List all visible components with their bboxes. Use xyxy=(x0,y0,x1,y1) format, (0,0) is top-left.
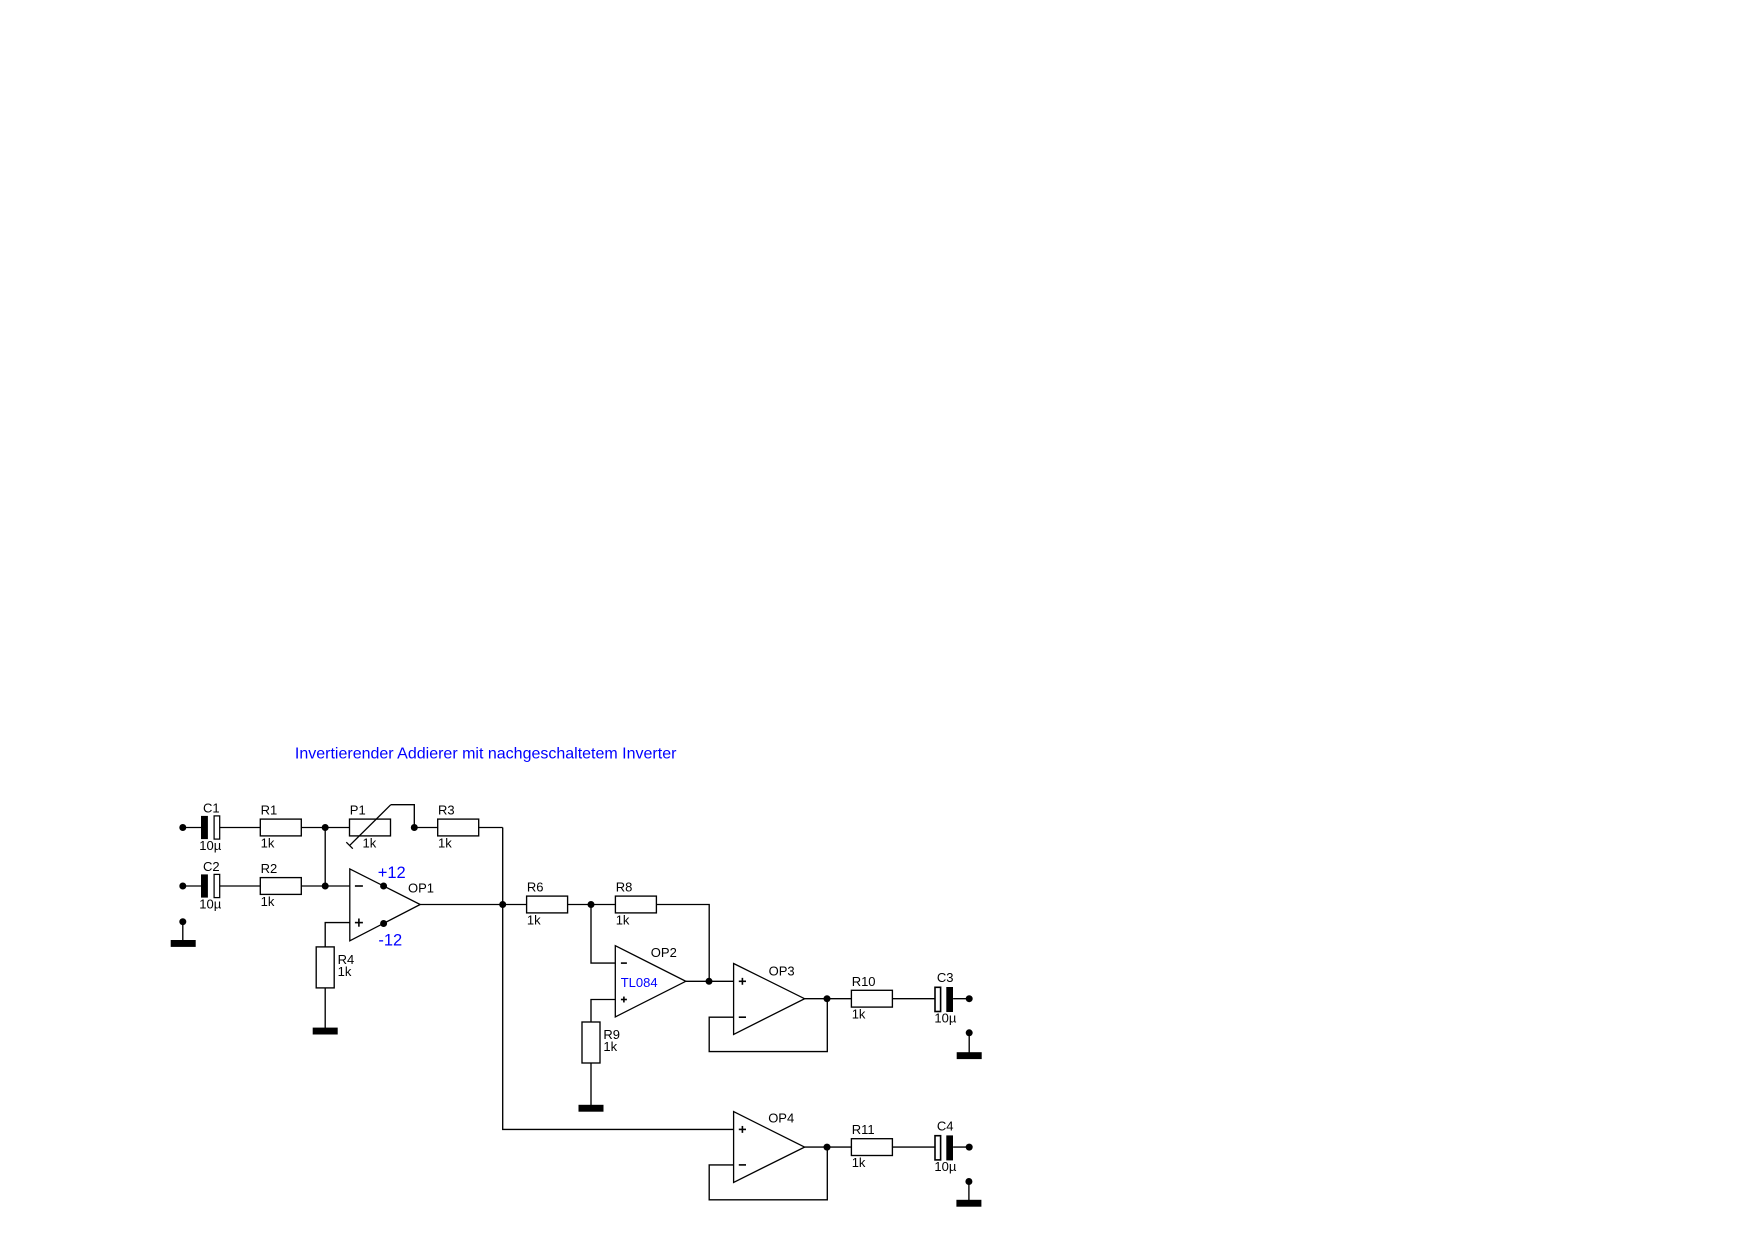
resistor R2 xyxy=(260,861,301,909)
svg-text:10µ: 10µ xyxy=(199,838,221,853)
svg-text:1k: 1k xyxy=(852,1007,866,1022)
capacitor C4 xyxy=(934,1119,956,1174)
wire xyxy=(414,827,437,829)
svg-text:1k: 1k xyxy=(438,835,452,850)
svg-text:-12: -12 xyxy=(378,931,402,949)
svg-text:1k: 1k xyxy=(527,912,541,927)
resistor R9 xyxy=(582,1022,620,1063)
wire xyxy=(590,1063,592,1105)
wire xyxy=(325,923,350,947)
svg-text:P1: P1 xyxy=(350,803,366,818)
svg-text:OP2: OP2 xyxy=(651,945,677,960)
wire xyxy=(805,998,852,1000)
capacitor C3 xyxy=(934,970,956,1025)
capacitor C2 xyxy=(199,859,221,912)
wire xyxy=(219,885,260,887)
wire xyxy=(324,988,326,1028)
svg-text:OP1: OP1 xyxy=(408,880,434,895)
svg-text:R8: R8 xyxy=(616,880,633,895)
svg-text:1k: 1k xyxy=(261,835,275,850)
op-amp OP3 xyxy=(734,964,805,1035)
wire xyxy=(953,998,969,1000)
node OP4 output junction xyxy=(824,1144,831,1151)
capacitor C1 xyxy=(199,800,221,853)
resistor R10 xyxy=(851,974,892,1022)
wire xyxy=(183,827,201,829)
power -12 supply dot xyxy=(380,920,387,927)
node junction B xyxy=(322,883,329,890)
wire R3 drop / OP4 feed xyxy=(503,828,734,1130)
node R6/R8 junction xyxy=(588,901,595,908)
resistor R6 xyxy=(527,880,568,928)
svg-text:1k: 1k xyxy=(603,1039,617,1054)
input pin node 2 xyxy=(179,883,186,890)
svg-text:10µ: 10µ xyxy=(934,1159,956,1174)
op-amp OP2 xyxy=(615,946,686,1017)
output pin node 1 xyxy=(966,995,973,1002)
wire xyxy=(219,827,260,829)
svg-text:1k: 1k xyxy=(338,964,352,979)
svg-text:OP4: OP4 xyxy=(768,1111,794,1126)
wire xyxy=(805,1146,852,1148)
svg-text:R3: R3 xyxy=(438,803,455,818)
ground C4 xyxy=(956,1178,981,1207)
node OP3 output junction xyxy=(824,995,831,1002)
resistor R3 xyxy=(438,803,479,851)
wire xyxy=(892,998,934,1000)
resistor R4 xyxy=(316,947,354,988)
wire P1 wiper xyxy=(391,805,415,828)
svg-text:1k: 1k xyxy=(261,894,275,909)
wire R8 to OP2 out xyxy=(656,905,709,982)
svg-text:1k: 1k xyxy=(616,912,630,927)
op-amp OP4 xyxy=(734,1112,805,1183)
power +12 supply dot xyxy=(380,883,387,890)
svg-text:C2: C2 xyxy=(203,859,220,874)
wire xyxy=(479,827,503,829)
svg-text:TL084: TL084 xyxy=(621,975,658,990)
svg-text:C4: C4 xyxy=(937,1119,954,1134)
svg-text:R10: R10 xyxy=(852,974,876,989)
wire xyxy=(503,904,527,906)
ground C3 xyxy=(957,1029,982,1059)
svg-text:OP3: OP3 xyxy=(769,964,795,979)
node OP1 output junction xyxy=(499,901,506,908)
svg-text:10µ: 10µ xyxy=(199,897,221,912)
output pin node 2 xyxy=(966,1144,973,1151)
ground R9 xyxy=(579,1105,604,1112)
ground R4 xyxy=(313,1028,338,1035)
wire xyxy=(686,980,734,982)
wire xyxy=(591,905,615,964)
svg-text:10µ: 10µ xyxy=(934,1011,956,1026)
svg-text:1k: 1k xyxy=(852,1155,866,1170)
wire xyxy=(953,1146,969,1148)
node OP2 output junction xyxy=(706,978,713,985)
wire xyxy=(324,828,326,887)
wire xyxy=(591,1000,615,1023)
wire xyxy=(568,904,616,906)
wire OP3 feedback xyxy=(709,999,827,1052)
svg-text:R11: R11 xyxy=(852,1122,875,1137)
ground input xyxy=(171,918,196,947)
wire xyxy=(183,885,201,887)
node junction A xyxy=(322,824,329,831)
input pin node 1 xyxy=(179,824,186,831)
svg-text:1k: 1k xyxy=(363,835,377,850)
svg-text:Invertierender Addierer mit na: Invertierender Addierer mit nachgeschalt… xyxy=(295,746,677,763)
node P1 wiper junction xyxy=(411,824,418,831)
resistor R8 xyxy=(615,880,656,928)
resistor R11 xyxy=(851,1122,892,1170)
wire xyxy=(892,1146,934,1148)
svg-text:R6: R6 xyxy=(527,880,544,895)
op-amp OP1 xyxy=(350,869,420,941)
potentiometer P1 xyxy=(346,803,391,851)
wire OP4 feedback xyxy=(709,1147,827,1200)
wire xyxy=(301,885,350,887)
svg-text:C3: C3 xyxy=(937,970,954,985)
svg-text:+12: +12 xyxy=(378,864,406,882)
wire xyxy=(420,904,503,906)
svg-text:C1: C1 xyxy=(203,800,220,815)
wire xyxy=(301,827,349,829)
svg-text:R1: R1 xyxy=(261,803,278,818)
resistor R1 xyxy=(260,803,301,851)
svg-text:R2: R2 xyxy=(261,861,278,876)
